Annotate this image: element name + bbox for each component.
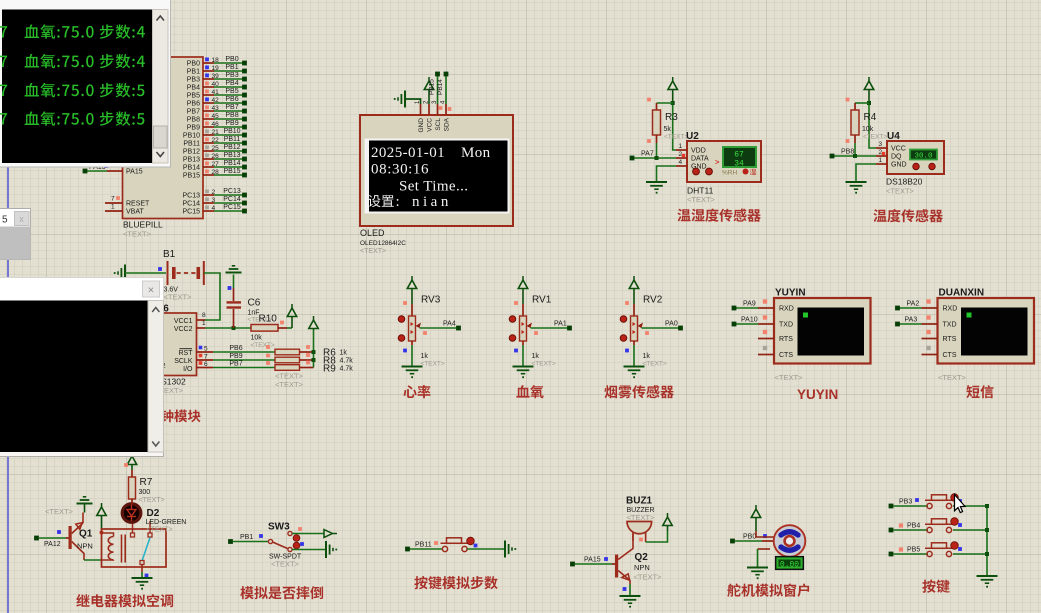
switch SW3 SW-SPDT	[268, 522, 302, 569]
svg-text:PC14: PC14	[223, 196, 241, 203]
svg-text:PB5: PB5	[907, 547, 920, 554]
svg-text:PB11: PB11	[224, 136, 241, 143]
svg-text:BLUEPILL: BLUEPILL	[123, 220, 163, 230]
svg-text:PC15: PC15	[182, 209, 200, 216]
wire PB7 (I/O)	[197, 361, 276, 369]
svg-text:LED-GREEN: LED-GREEN	[146, 519, 187, 526]
wire PC14 (pin 3)	[182, 196, 246, 208]
ground (Q1 emitter, up)	[77, 497, 93, 513]
svg-text:PA12: PA12	[44, 541, 61, 548]
svg-text:SCLK: SCLK	[174, 358, 193, 365]
svg-text:<TEXT>: <TEXT>	[532, 361, 556, 368]
wire servo to ground	[758, 549, 771, 567]
svg-text:DATA: DATA	[691, 156, 709, 163]
wire Q2 emitter to ground	[623, 584, 630, 596]
svg-text:10k: 10k	[251, 335, 263, 342]
wire / net PB1	[228, 534, 268, 544]
svg-text:<TEXT>: <TEXT>	[643, 361, 667, 368]
power +V (OLED VCC)	[424, 77, 433, 104]
ground (DS18B20)	[846, 182, 867, 194]
caption 继电器模拟空调	[76, 594, 173, 607]
svg-text:RTS: RTS	[943, 336, 957, 343]
svg-text:OLED: OLED	[360, 228, 385, 238]
svg-text:1: 1	[879, 157, 883, 164]
svg-text:<TEXT>: <TEXT>	[271, 560, 300, 569]
wire / net PA9	[732, 301, 758, 311]
wire / net PB4	[889, 523, 928, 533]
wire PB4 to rail	[953, 529, 987, 531]
svg-text:<TEXT>: <TEXT>	[164, 293, 193, 302]
wire / net PA1	[531, 321, 572, 335]
svg-text:RTS: RTS	[779, 336, 793, 343]
wire PB0 (pin 18)	[187, 56, 247, 68]
resistor R9 4.7k	[266, 361, 353, 375]
wire PC13 (pin 2)	[182, 188, 246, 200]
svg-text:PB8: PB8	[187, 117, 200, 124]
svg-text:PA15: PA15	[584, 557, 601, 564]
svg-text:TXD: TXD	[943, 322, 957, 329]
svg-text:PB12: PB12	[183, 149, 200, 156]
svg-text:SW3: SW3	[268, 522, 290, 533]
svg-text:PA3: PA3	[905, 317, 918, 324]
svg-text:1: 1	[111, 204, 115, 211]
svg-text:VCC2: VCC2	[174, 326, 193, 333]
svg-text:DHT11: DHT11	[687, 186, 714, 196]
wire PB7 (pin 43)	[187, 104, 247, 116]
wire to ground (RV2)	[633, 345, 635, 367]
ground (OLED pin1, sideways)	[394, 91, 405, 108]
svg-text:YUYIN: YUYIN	[775, 288, 806, 299]
svg-text:GND: GND	[891, 162, 907, 169]
power +V (DS18B20)	[864, 77, 873, 103]
wire VDD rail (DHT11)	[671, 101, 676, 150]
wire PB9 (pin 46)	[187, 120, 247, 132]
svg-text:PB14: PB14	[223, 160, 240, 167]
svg-text:1: 1	[679, 143, 683, 150]
wire PB3 (pin 39)	[187, 72, 247, 84]
ground (RV2)	[624, 367, 645, 379]
caption 烟雾传感器	[604, 385, 673, 398]
ground (C6, pointing up)	[226, 266, 242, 273]
power +V (relay coil)	[97, 503, 106, 535]
svg-text:PB8: PB8	[841, 149, 854, 156]
servo angle display 0.00	[776, 557, 804, 570]
svg-text:R4: R4	[864, 112, 877, 123]
svg-text:Q2: Q2	[635, 552, 649, 563]
battery B1 3.6V	[163, 249, 204, 302]
svg-text:7: 7	[204, 354, 208, 361]
wire / net PA10	[732, 317, 758, 327]
svg-text:PA7: PA7	[641, 151, 654, 158]
svg-text:×: ×	[148, 285, 154, 297]
wire / net PB0 (servo)	[730, 534, 773, 544]
pin 2 VCC (OLED)	[424, 100, 434, 132]
wire PC15 (pin 4)	[182, 204, 246, 216]
power +V (buzzer)	[663, 513, 672, 531]
svg-text:PB7: PB7	[229, 361, 242, 368]
resistor R4 10k	[846, 98, 888, 143]
wire buzzer to +V	[639, 531, 667, 542]
resistor R3 5k	[647, 98, 688, 143]
wire PB5 (pin 41)	[187, 88, 247, 100]
svg-text:<TEXT>: <TEXT>	[687, 195, 716, 204]
svg-text:PB3: PB3	[225, 72, 238, 79]
wire / net PB8	[830, 143, 876, 158]
sensor U2 DHT11	[676, 131, 761, 204]
wire / net PA7	[630, 143, 676, 160]
ground (SW3, sideways)	[326, 541, 337, 558]
power +V (RV1)	[518, 276, 527, 304]
svg-text:<TEXT>: <TEXT>	[634, 573, 663, 582]
wire SW3 bottom to ground	[292, 542, 325, 549]
svg-text:I/O: I/O	[183, 366, 193, 373]
wire PB11 (pin 22)	[183, 136, 247, 148]
pin RESET (7)	[105, 196, 150, 208]
mouse cursor	[955, 495, 966, 513]
ground (relay)	[132, 578, 153, 590]
wire relay common to ground	[142, 565, 148, 579]
LED D2 LED-GREEN	[122, 504, 186, 534]
terminal green text rows	[0, 24, 145, 126]
svg-text:VCC1: VCC1	[174, 318, 193, 325]
svg-text:PB11: PB11	[415, 542, 432, 549]
svg-text:nian: nian	[412, 194, 452, 210]
clock chip U6 DS1302	[140, 304, 197, 396]
wire SW3 top to power arrow	[292, 527, 324, 533]
wire / net PA2	[895, 301, 921, 311]
svg-text:NPN: NPN	[77, 542, 93, 551]
svg-text:x: x	[19, 214, 24, 224]
svg-text:<TEXT>: <TEXT>	[139, 497, 165, 504]
wire / net PA15 (Q2 base)	[570, 557, 615, 567]
button PB3	[925, 494, 962, 509]
svg-text:B1: B1	[163, 249, 176, 260]
capacitor C6 1nF	[227, 275, 272, 329]
svg-text:PB7: PB7	[225, 104, 238, 111]
wire PB8 (pin 45)	[187, 112, 247, 124]
svg-text:R9: R9	[323, 364, 336, 375]
svg-text:1k: 1k	[340, 350, 348, 357]
svg-text:DQ: DQ	[891, 154, 902, 161]
svg-text:PB6: PB6	[187, 101, 200, 108]
svg-text:PB11: PB11	[183, 141, 200, 148]
svg-text:PB3: PB3	[899, 499, 912, 506]
svg-text:PA2: PA2	[907, 301, 920, 308]
wire to ground (RV3)	[411, 345, 413, 367]
svg-text:PB9: PB9	[225, 120, 238, 127]
small grey popup window	[0, 209, 31, 260]
caption 舵机模拟窗户	[727, 583, 809, 597]
wire VCC2 / C6 node	[197, 320, 252, 330]
svg-text:BUZ1: BUZ1	[626, 496, 653, 507]
svg-text:DS18B20: DS18B20	[886, 177, 923, 187]
svg-text:RXD: RXD	[779, 306, 794, 313]
svg-text:PB15: PB15	[429, 79, 436, 95]
pin 3 SCL (OLED)	[432, 100, 442, 131]
svg-text:PC13: PC13	[182, 193, 200, 200]
svg-text:<TEXT>: <TEXT>	[123, 230, 152, 239]
resistor R7 300	[129, 470, 165, 504]
caption 按键	[922, 580, 949, 593]
potentiometer RV2 1k	[620, 295, 667, 368]
svg-text:PB7: PB7	[187, 109, 200, 116]
wire battery to VCC1 pin8	[197, 273, 221, 320]
svg-text:R10: R10	[259, 314, 278, 325]
resistor R10 10k	[251, 314, 293, 350]
power +V (RV2)	[629, 276, 638, 304]
transistor Q2 NPN	[615, 534, 662, 585]
pin 4 SDA (OLED)	[441, 100, 451, 131]
caption 模拟是否摔倒	[240, 586, 323, 599]
svg-text:PB8: PB8	[225, 112, 238, 119]
svg-text:CTS: CTS	[779, 352, 793, 359]
svg-text:8: 8	[202, 312, 206, 319]
svg-text:PB12: PB12	[223, 144, 240, 151]
wire / net PA4	[420, 321, 461, 335]
common rail to ground (keys)	[985, 504, 989, 576]
OLED display U3 OLED12864I2C	[360, 115, 513, 255]
ground (Q2)	[620, 596, 641, 608]
svg-text:>: >	[715, 158, 720, 167]
button PB4	[925, 518, 962, 533]
svg-text:10k: 10k	[862, 126, 874, 133]
svg-text:PC14: PC14	[182, 201, 200, 208]
svg-text:1: 1	[202, 320, 206, 327]
wire / net PB11	[405, 541, 442, 551]
svg-text:CTS: CTS	[943, 352, 957, 359]
svg-text:PA0: PA0	[665, 321, 678, 328]
svg-text:DUANXIN: DUANXIN	[939, 288, 985, 299]
svg-text:5k: 5k	[664, 126, 672, 133]
sensor U4 DS18B20	[876, 131, 944, 196]
ground (DHT11)	[646, 182, 667, 194]
svg-text:5: 5	[2, 215, 8, 226]
wire PB6 (RST)	[197, 345, 276, 353]
wire OLED GND to ground	[406, 99, 421, 104]
svg-text:3: 3	[879, 141, 883, 148]
svg-text:PB5: PB5	[187, 93, 200, 100]
power +V (servo)	[751, 505, 774, 537]
resistor R8 4.7k	[266, 353, 353, 366]
svg-text:PB3: PB3	[187, 77, 200, 84]
svg-text:4.7k: 4.7k	[340, 358, 354, 365]
texts under resistor pack	[275, 372, 304, 390]
svg-text:PB9: PB9	[229, 353, 242, 360]
caption 时钟模块	[148, 410, 201, 423]
ground (keys)	[977, 576, 998, 588]
ground (RV1)	[513, 367, 534, 379]
wire PA15 (left)	[83, 164, 143, 176]
svg-text:1k: 1k	[532, 353, 540, 360]
caption 温度传感器	[873, 209, 942, 222]
wire PB15 (pin 28)	[183, 168, 247, 180]
svg-text:PB5: PB5	[225, 88, 238, 95]
svg-text:PA9: PA9	[743, 301, 756, 308]
caption 心率	[404, 385, 431, 398]
svg-text:PB0: PB0	[743, 534, 756, 541]
svg-text:PA10: PA10	[741, 317, 758, 324]
svg-text:<TEXT>: <TEXT>	[421, 361, 445, 368]
wire PB6 (pin 42)	[187, 96, 247, 108]
wire PB9 (SCLK)	[197, 353, 276, 361]
wire battery left	[125, 267, 166, 273]
wire button to ground	[467, 548, 504, 550]
relay RL1 (air conditioner)	[102, 521, 167, 567]
motor M1 (servo window)	[774, 525, 806, 557]
module YUYIN	[758, 288, 871, 383]
text placeholder near Q1	[45, 507, 74, 516]
wire / net PB5	[889, 547, 928, 557]
wire PB14 (pin 27)	[183, 160, 247, 172]
svg-text:RESET: RESET	[126, 201, 150, 208]
ground (battery B1, sideways left)	[114, 265, 125, 282]
svg-text:VBAT: VBAT	[126, 209, 144, 216]
svg-text:PB10: PB10	[183, 133, 200, 140]
svg-text:PB1: PB1	[240, 534, 253, 541]
wire PB4 (pin 40)	[187, 80, 247, 92]
pin 1 GND (OLED)	[415, 100, 425, 132]
svg-text:Mon: Mon	[461, 145, 491, 161]
svg-text:5: 5	[204, 346, 208, 353]
potentiometer RV1 1k	[509, 295, 556, 368]
buzzer BUZ1	[626, 496, 655, 543]
svg-text:PB6: PB6	[225, 96, 238, 103]
button (step count)	[441, 537, 478, 551]
svg-text:PB6: PB6	[229, 345, 242, 352]
svg-text:RV1: RV1	[532, 295, 552, 306]
svg-text:RV3: RV3	[421, 295, 441, 306]
ground (RV3)	[402, 367, 423, 379]
svg-text:PB15: PB15	[183, 173, 200, 180]
svg-text:PB4: PB4	[225, 80, 238, 87]
svg-text:PB14: PB14	[437, 79, 444, 95]
svg-text:6: 6	[204, 361, 208, 368]
caption 按键模拟步数	[414, 576, 497, 589]
svg-text:34: 34	[734, 160, 744, 169]
button PB5	[925, 542, 962, 557]
svg-text:D2: D2	[147, 508, 160, 519]
power arrow right (SW3)	[324, 530, 337, 538]
svg-text:<TEXT>: <TEXT>	[147, 527, 173, 534]
wire / net PA3	[895, 317, 921, 327]
svg-text:0.00: 0.00	[780, 561, 799, 570]
wire VCC rail (DS18B20)	[867, 101, 876, 148]
state square PB3	[915, 498, 919, 502]
svg-text:PB4: PB4	[187, 85, 200, 92]
svg-text:<TEXT>: <TEXT>	[360, 248, 386, 255]
svg-text:<TEXT>: <TEXT>	[938, 373, 967, 382]
wire SCL / net PB15	[429, 72, 443, 110]
svg-text:OLED12864I2C: OLED12864I2C	[360, 240, 406, 247]
caption 温湿度传感器	[677, 209, 760, 222]
virtual terminal window	[0, 0, 171, 167]
microcontroller U1 BLUEPILL	[123, 57, 204, 239]
svg-text:RV2: RV2	[643, 295, 663, 306]
svg-text:R3: R3	[665, 112, 678, 123]
svg-text:PC13: PC13	[223, 188, 241, 195]
caption 短信	[966, 385, 993, 398]
module DUANXIN	[922, 288, 1035, 383]
svg-text:7: 7	[111, 196, 115, 203]
svg-text:PB1: PB1	[225, 64, 238, 71]
svg-text:PA4: PA4	[443, 321, 456, 328]
wire / net PA12	[34, 530, 68, 548]
wire Q1 collector to relay coil	[84, 559, 102, 561]
caption 血氧	[516, 385, 543, 398]
svg-text:YUYIN: YUYIN	[797, 387, 838, 402]
svg-text:PB14: PB14	[183, 165, 200, 172]
svg-text:1k: 1k	[643, 353, 651, 360]
svg-text:300: 300	[139, 489, 151, 496]
svg-text:PB1: PB1	[187, 69, 200, 76]
wire PB10 (pin 21)	[183, 128, 247, 140]
svg-text:GND: GND	[418, 118, 425, 133]
svg-text:PB13: PB13	[183, 157, 200, 164]
svg-text:4.7k: 4.7k	[340, 366, 354, 373]
svg-text:RST: RST	[179, 350, 194, 357]
svg-text:1k: 1k	[421, 353, 429, 360]
transistor Q1 NPN	[69, 513, 93, 561]
svg-text:<TEXT>: <TEXT>	[45, 507, 74, 516]
large popup window with black client area	[0, 278, 164, 457]
svg-text:PB13: PB13	[223, 152, 240, 159]
svg-text:RXD: RXD	[943, 306, 958, 313]
svg-text:4: 4	[679, 159, 683, 166]
wire / net PB3	[889, 499, 928, 509]
svg-text:PB9: PB9	[187, 125, 200, 132]
power +V (DHT11)	[668, 77, 677, 103]
svg-text:PC15: PC15	[223, 204, 241, 211]
svg-text:VCC: VCC	[427, 118, 434, 132]
wire PB1 (pin 19)	[187, 64, 247, 76]
svg-text:PB4: PB4	[907, 523, 920, 530]
svg-text::: :	[396, 194, 400, 210]
svg-text:<TEXT>: <TEXT>	[886, 187, 915, 196]
svg-text:R7: R7	[140, 477, 153, 488]
wire PB5 to rail	[953, 553, 987, 555]
svg-text:PB15: PB15	[223, 168, 240, 175]
svg-text:<TEXT>: <TEXT>	[251, 342, 275, 349]
svg-text:<TEXT>: <TEXT>	[863, 134, 887, 141]
wire GND (DHT11)	[657, 166, 677, 182]
svg-text:Q1: Q1	[79, 529, 93, 540]
power +V (R7)	[124, 452, 137, 470]
svg-text:<TEXT>: <TEXT>	[775, 373, 804, 382]
potentiometer RV3 1k	[398, 295, 445, 368]
svg-text:<TEXT>: <TEXT>	[275, 380, 304, 389]
svg-text:TXD: TXD	[779, 322, 793, 329]
svg-text:PB0: PB0	[225, 56, 238, 63]
svg-text:VDD: VDD	[691, 148, 706, 155]
sheet border (blue)	[7, 0, 9, 613]
wire SDA / net PB14	[437, 72, 451, 111]
pullup rail + power arrow	[309, 316, 318, 368]
svg-text:C6: C6	[248, 298, 261, 309]
svg-text:<TEXT>: <TEXT>	[664, 134, 688, 141]
svg-text:VCC: VCC	[891, 146, 906, 153]
svg-text:%RH: %RH	[722, 170, 737, 177]
power +V (R10)	[287, 304, 296, 328]
wire PB12 (pin 25)	[183, 144, 247, 156]
svg-text:2025-01-01: 2025-01-01	[371, 145, 445, 161]
svg-text:30.0: 30.0	[914, 153, 933, 161]
pin VBAT (1)	[105, 204, 144, 216]
caption YUYIN	[797, 387, 838, 402]
ground (button, sideways)	[505, 541, 516, 558]
svg-text:PB10: PB10	[223, 128, 240, 135]
svg-text:Set Time...: Set Time...	[399, 179, 468, 195]
wire GND (DS18B20)	[856, 164, 876, 182]
